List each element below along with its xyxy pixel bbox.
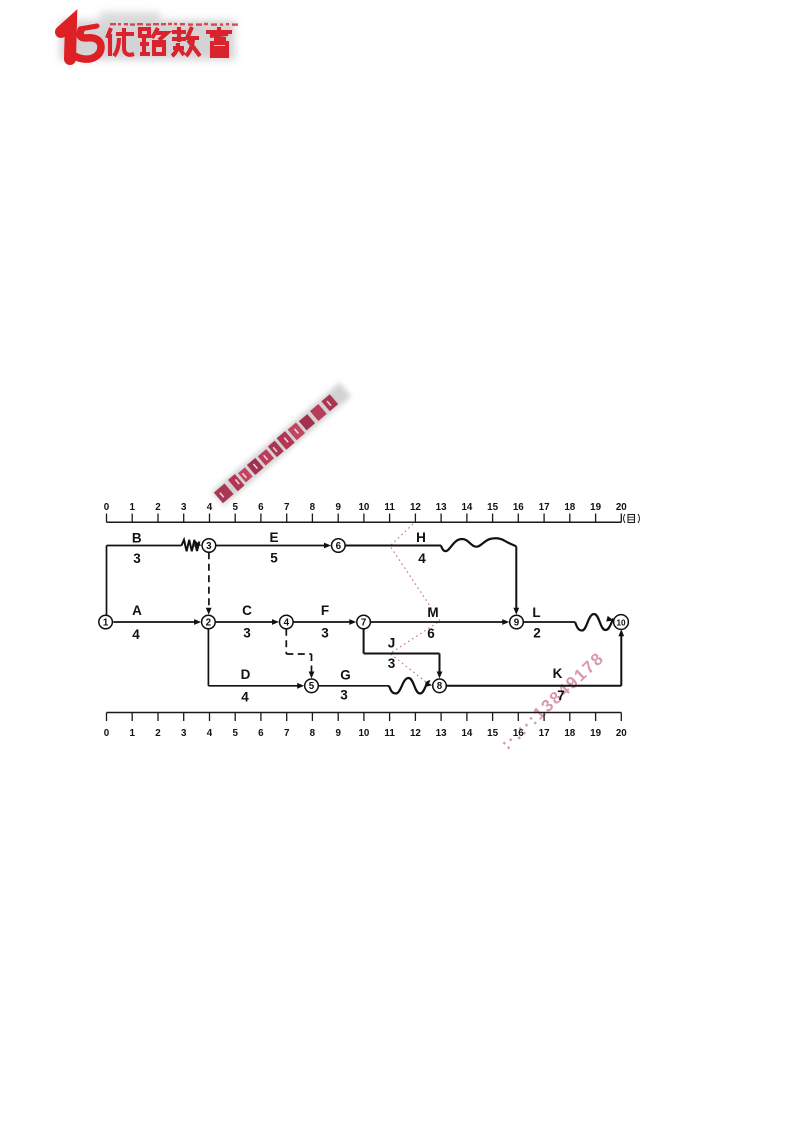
label L bbox=[532, 605, 540, 620]
label J duration 3 bbox=[388, 656, 396, 671]
label D bbox=[241, 667, 251, 682]
svg-text:5: 5 bbox=[309, 681, 315, 692]
node 8 bbox=[433, 679, 447, 693]
svg-text:7: 7 bbox=[284, 502, 290, 513]
node 3 bbox=[202, 539, 216, 553]
activity J wire from node7 to node8 bbox=[364, 629, 443, 679]
label F bbox=[321, 603, 329, 618]
label K bbox=[553, 666, 563, 681]
top ruler unit label (月) bbox=[624, 514, 640, 523]
svg-text:18: 18 bbox=[564, 502, 575, 513]
svg-text:9: 9 bbox=[335, 502, 341, 513]
watermark band lower-right bbox=[497, 648, 608, 753]
label M duration 6 bbox=[427, 626, 435, 641]
logo icon (stylized 15) bbox=[61, 23, 101, 59]
node 4 bbox=[280, 615, 294, 629]
wire node2 down to bottom row bbox=[207, 629, 209, 686]
svg-text:6: 6 bbox=[336, 541, 342, 552]
svg-text:L: L bbox=[532, 605, 540, 620]
svg-text:16: 16 bbox=[513, 728, 524, 739]
svg-text:3: 3 bbox=[321, 626, 329, 641]
svg-text:18: 18 bbox=[564, 728, 575, 739]
svg-text:15: 15 bbox=[487, 728, 498, 739]
svg-text:12: 12 bbox=[410, 728, 421, 739]
svg-text:13: 13 bbox=[436, 728, 447, 739]
activity D arrow bbox=[208, 683, 304, 689]
node 1 bbox=[99, 615, 113, 629]
red dotted fold line bbox=[390, 524, 440, 686]
logo slogan dashes bbox=[110, 23, 238, 26]
svg-text:C: C bbox=[242, 603, 252, 618]
svg-text:4: 4 bbox=[207, 502, 213, 513]
label J bbox=[388, 636, 396, 651]
node 5 bbox=[305, 679, 319, 693]
svg-text:2: 2 bbox=[533, 625, 541, 640]
svg-text:M: M bbox=[427, 605, 438, 620]
svg-text:14: 14 bbox=[461, 728, 472, 739]
svg-text:17: 17 bbox=[539, 728, 550, 739]
svg-text:19: 19 bbox=[590, 728, 601, 739]
svg-text:1: 1 bbox=[103, 617, 109, 628]
activity C arrow bbox=[215, 619, 279, 625]
label B bbox=[132, 531, 142, 546]
label G duration 3 bbox=[340, 688, 348, 703]
label B duration 3 bbox=[133, 551, 141, 566]
node 9 bbox=[510, 615, 524, 629]
svg-text:3: 3 bbox=[133, 551, 141, 566]
svg-text:9: 9 bbox=[335, 728, 341, 739]
label K duration 7 bbox=[557, 688, 565, 703]
node 7 bbox=[357, 615, 371, 629]
label A bbox=[132, 603, 142, 618]
svg-text:9: 9 bbox=[514, 617, 520, 628]
svg-text:7: 7 bbox=[284, 728, 290, 739]
svg-text:J: J bbox=[388, 636, 396, 651]
svg-text:10: 10 bbox=[358, 728, 369, 739]
label C duration 3 bbox=[243, 626, 251, 641]
svg-text:3: 3 bbox=[181, 728, 187, 739]
svg-text:4: 4 bbox=[418, 551, 426, 566]
svg-text:7: 7 bbox=[557, 688, 565, 703]
svg-text:11: 11 bbox=[384, 502, 395, 513]
label L duration 2 bbox=[533, 625, 541, 640]
logo grey halo bbox=[60, 12, 235, 60]
label H duration 4 bbox=[418, 551, 426, 566]
svg-text:0: 0 bbox=[104, 728, 110, 739]
svg-text:13: 13 bbox=[436, 502, 447, 513]
svg-text:15: 15 bbox=[487, 502, 498, 513]
svg-text:1: 1 bbox=[129, 502, 135, 513]
node 6 bbox=[332, 539, 346, 553]
activity K wire from node8 to node10 bbox=[446, 629, 624, 686]
svg-text:10: 10 bbox=[616, 618, 626, 627]
svg-text:3: 3 bbox=[388, 656, 396, 671]
label G bbox=[340, 668, 351, 683]
activity M arrow bbox=[370, 619, 509, 625]
svg-text:6: 6 bbox=[258, 502, 264, 513]
top ruler bbox=[104, 502, 628, 522]
svg-text:20: 20 bbox=[616, 728, 627, 739]
node 10 bbox=[614, 615, 629, 630]
svg-text:16: 16 bbox=[513, 502, 524, 513]
label C bbox=[242, 603, 252, 618]
svg-text:11: 11 bbox=[384, 728, 395, 739]
svg-text:5: 5 bbox=[232, 502, 238, 513]
svg-text:3: 3 bbox=[340, 688, 348, 703]
svg-text:5: 5 bbox=[270, 551, 278, 566]
activity H line wavy and drop to node9 bbox=[345, 538, 519, 614]
svg-text:20: 20 bbox=[616, 502, 627, 513]
svg-text:D: D bbox=[241, 667, 251, 682]
svg-text:2: 2 bbox=[155, 502, 161, 513]
svg-text:5: 5 bbox=[232, 728, 238, 739]
dummy arrow node3 to node2 dashed bbox=[206, 552, 212, 614]
label E bbox=[269, 530, 278, 545]
activity L line with float wavy to node10 bbox=[523, 614, 614, 631]
activity A arrow bbox=[113, 619, 201, 625]
svg-text:1: 1 bbox=[129, 728, 135, 739]
svg-text:4: 4 bbox=[132, 627, 140, 642]
activity E arrow bbox=[216, 543, 331, 549]
svg-text:7: 7 bbox=[361, 617, 367, 628]
svg-text:0: 0 bbox=[104, 502, 110, 513]
svg-text:10: 10 bbox=[358, 502, 369, 513]
svg-text:8: 8 bbox=[437, 681, 443, 692]
svg-text:G: G bbox=[340, 668, 351, 683]
activity G line with float wavy to node8 bbox=[318, 678, 432, 694]
svg-text:6: 6 bbox=[427, 626, 435, 641]
label D duration 4 bbox=[241, 690, 249, 705]
activity F arrow bbox=[293, 619, 356, 625]
svg-text:A: A bbox=[132, 603, 142, 618]
svg-text:4: 4 bbox=[207, 728, 213, 739]
svg-text:4: 4 bbox=[284, 617, 290, 628]
svg-text:2: 2 bbox=[206, 617, 212, 628]
logo text 优路教育 bbox=[107, 27, 232, 56]
svg-text:E: E bbox=[269, 530, 278, 545]
svg-text:4: 4 bbox=[241, 690, 249, 705]
svg-text:3: 3 bbox=[181, 502, 187, 513]
svg-text:19: 19 bbox=[590, 502, 601, 513]
node 2 bbox=[202, 615, 216, 629]
label M bbox=[427, 605, 438, 620]
svg-text:12: 12 bbox=[410, 502, 421, 513]
svg-text:3: 3 bbox=[243, 626, 251, 641]
bottom ruler bbox=[104, 713, 628, 740]
svg-text:F: F bbox=[321, 603, 329, 618]
svg-text:8: 8 bbox=[310, 502, 316, 513]
svg-text:2: 2 bbox=[155, 728, 161, 739]
dummy arrow node4 to node5 dashed bbox=[286, 629, 314, 679]
label E duration 5 bbox=[270, 551, 278, 566]
svg-text:8: 8 bbox=[310, 728, 316, 739]
label F duration 3 bbox=[321, 626, 329, 641]
activity B arrow with float zigzag bbox=[107, 540, 203, 552]
svg-text:3: 3 bbox=[206, 541, 212, 552]
watermark band upper bbox=[212, 383, 351, 506]
svg-text:K: K bbox=[553, 666, 563, 681]
label A duration 4 bbox=[132, 627, 140, 642]
svg-text:H: H bbox=[416, 530, 426, 545]
svg-text:14: 14 bbox=[461, 502, 472, 513]
label H bbox=[416, 530, 426, 545]
wire node1 up to top row bbox=[106, 546, 108, 616]
svg-text:B: B bbox=[132, 531, 142, 546]
svg-text:17: 17 bbox=[539, 502, 550, 513]
svg-text:6: 6 bbox=[258, 728, 264, 739]
